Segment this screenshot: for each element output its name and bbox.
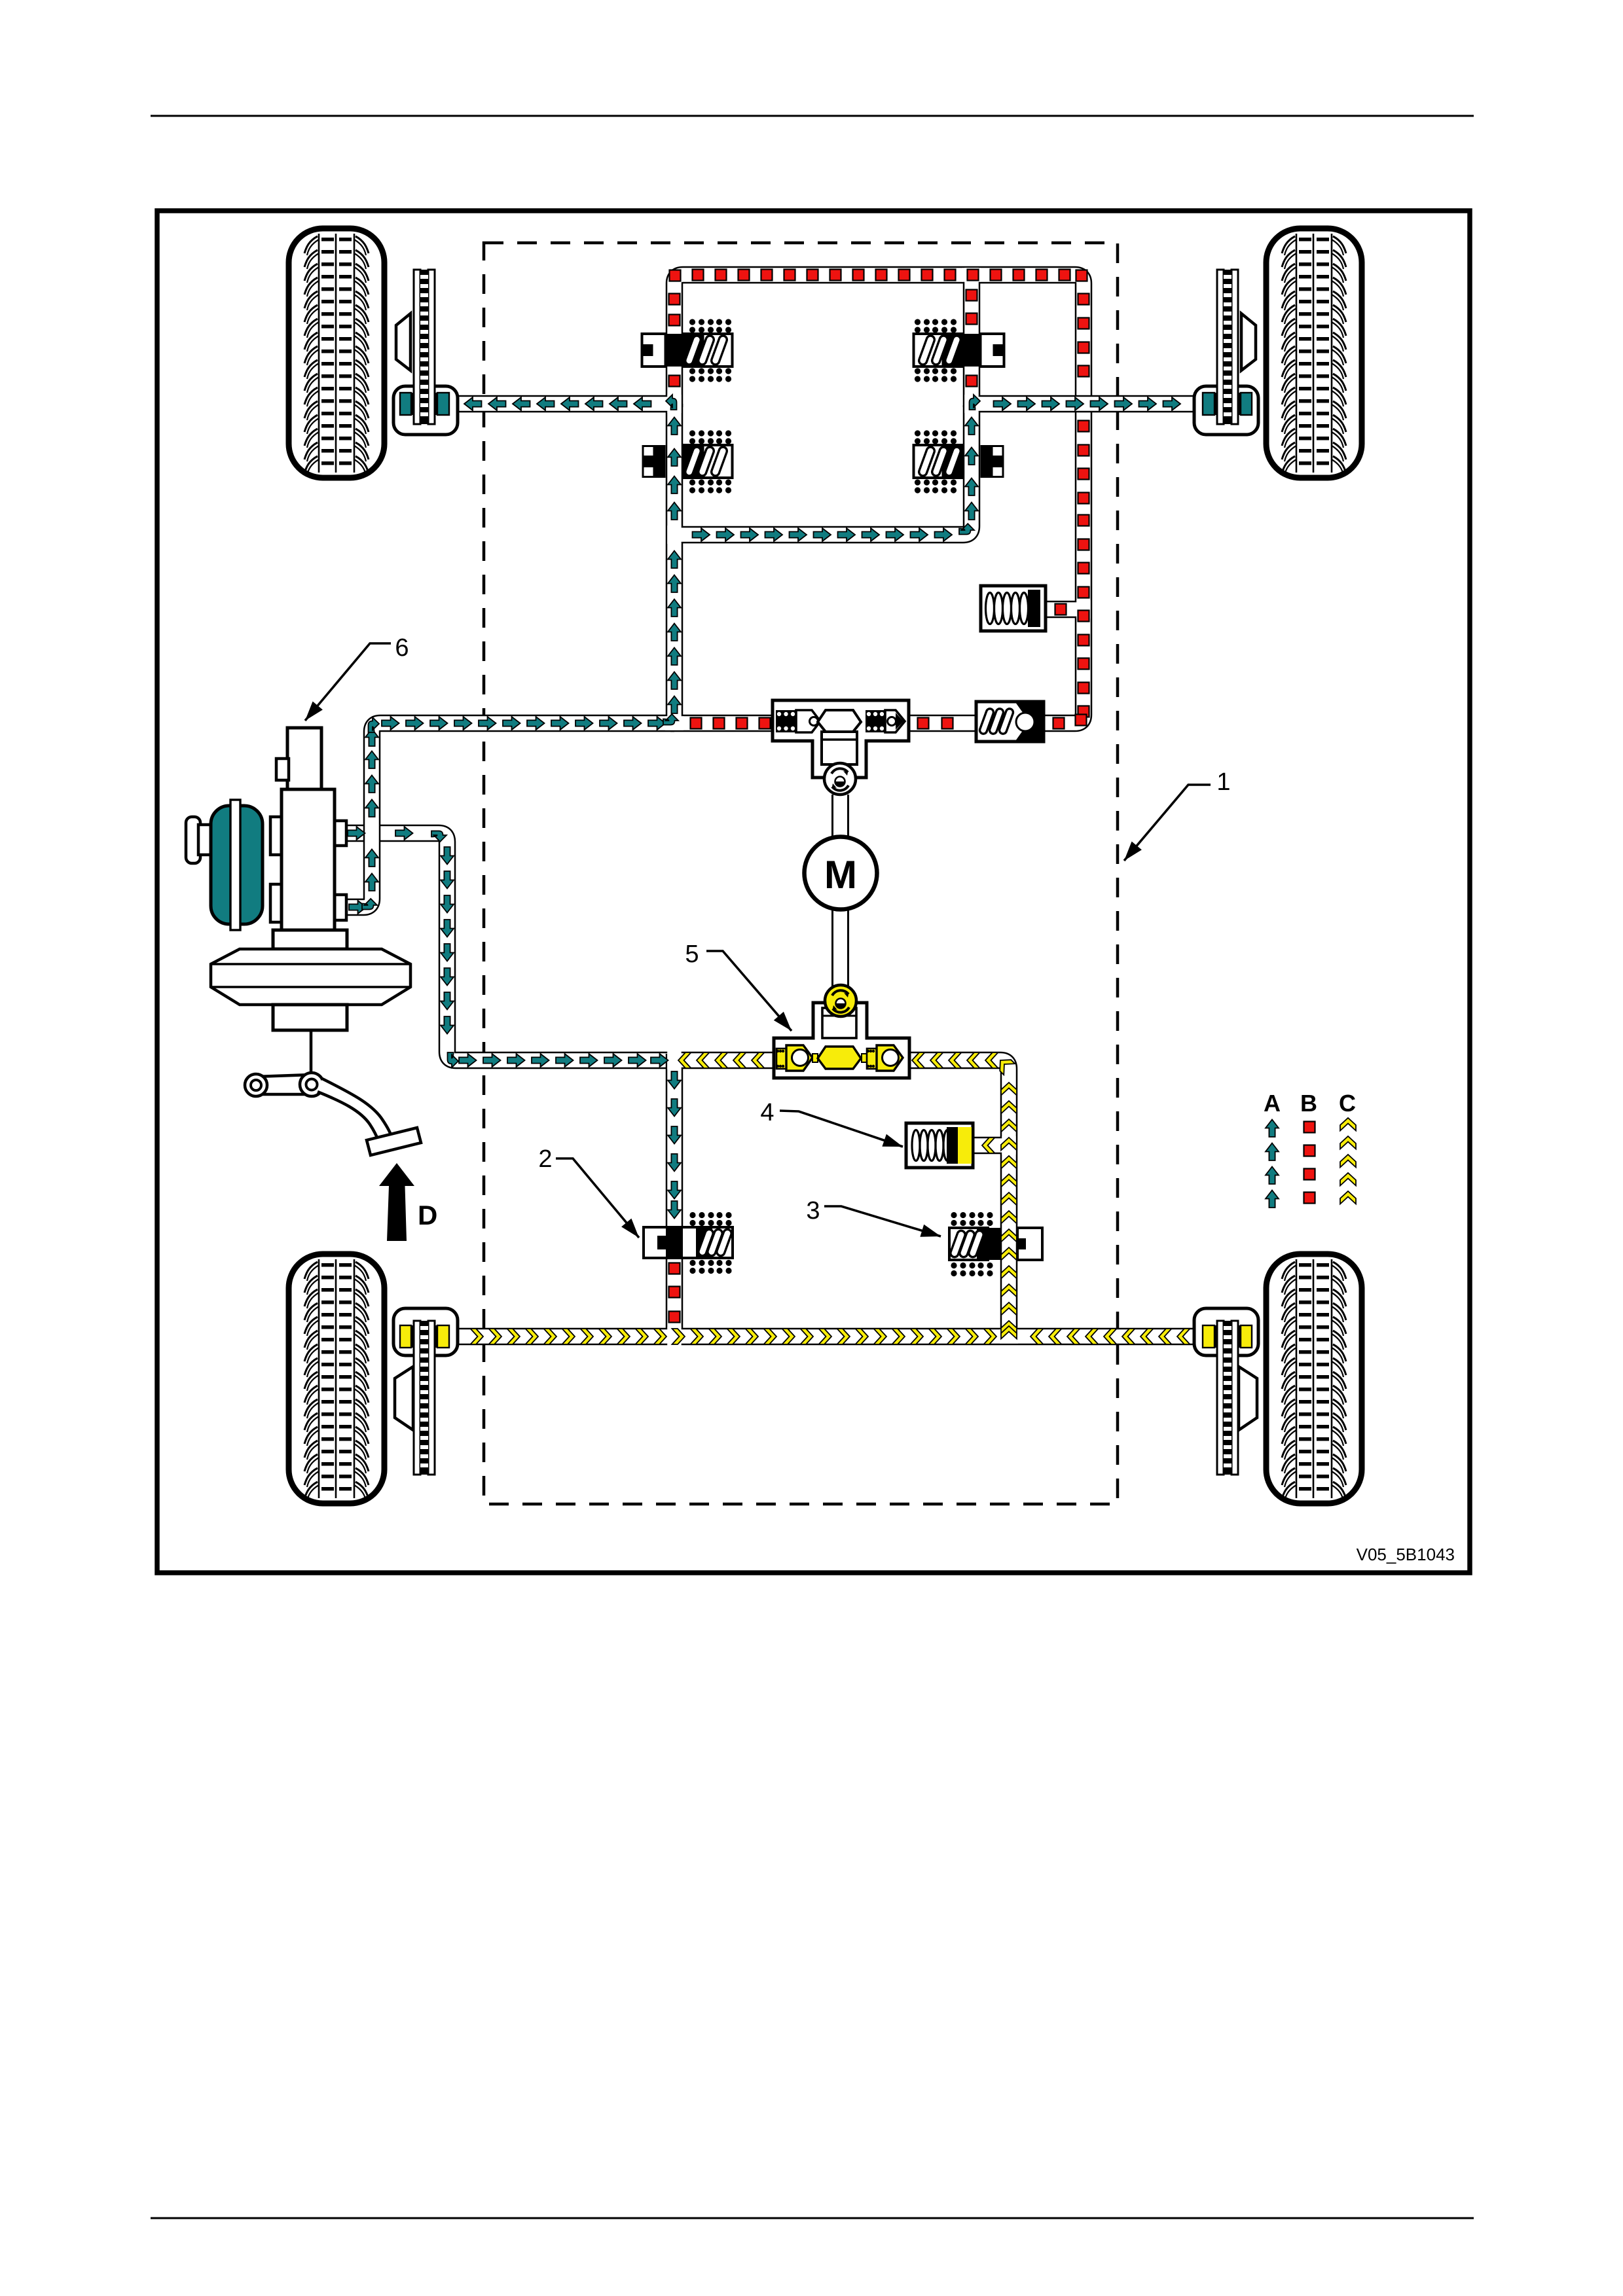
dashed hydraulic-unit boundary (item 1) xyxy=(484,243,1118,1504)
tire rear-left xyxy=(289,1254,384,1503)
diagram border box xyxy=(157,211,1470,1573)
solenoid valve 2 (rear circuit, blocks pipe) xyxy=(644,1212,733,1274)
eccentric drive (upper pump) xyxy=(824,763,856,795)
wire teal front-circuit feed from master cylinder (A) xyxy=(346,723,674,907)
wire rear axle line (C) xyxy=(455,1328,1197,1346)
wire teal riser to front wheels (A) xyxy=(666,404,684,730)
svg-text:6: 6 xyxy=(395,634,409,662)
accumulator 4 (yellow circuit) xyxy=(906,1123,973,1168)
leader line 4 xyxy=(780,1111,903,1147)
damper chamber (red circuit, inline) xyxy=(976,702,1044,742)
svg-text:5: 5 xyxy=(685,941,699,968)
wire accumulator stub (red) xyxy=(1042,601,1085,619)
leader line 3 xyxy=(824,1206,941,1237)
svg-text:V05_5B1043: V05_5B1043 xyxy=(1357,1545,1455,1564)
leader line 6 xyxy=(305,643,391,721)
svg-text:2: 2 xyxy=(538,1145,552,1173)
junction patches xyxy=(667,395,681,413)
wire red return loop (B) xyxy=(670,275,1084,723)
leader line 1 xyxy=(1124,785,1211,861)
solenoid valve front-right outlet xyxy=(914,430,1004,493)
page bottom rule xyxy=(151,2217,1474,2219)
low-pressure accumulator (upper, red circuit) xyxy=(981,586,1046,631)
eccentric drive (pump 5) xyxy=(825,985,856,1016)
vacuum booster xyxy=(211,930,410,1030)
svg-text:C: C xyxy=(1339,1090,1356,1117)
wire yellow pump-5 suction/return line (C) xyxy=(673,1060,1009,1338)
svg-text:A: A xyxy=(1264,1090,1281,1117)
tire front-right xyxy=(1266,228,1362,478)
legend markers xyxy=(1266,1118,1356,1208)
brake rear-right xyxy=(1194,1308,1258,1475)
svg-text:B: B xyxy=(1300,1090,1317,1117)
svg-text:1: 1 xyxy=(1216,768,1230,796)
leader line 5 xyxy=(706,951,792,1031)
pedal force arrow D xyxy=(379,1163,437,1241)
wire front axle line right (A) xyxy=(970,395,1195,413)
svg-text:4: 4 xyxy=(760,1099,774,1126)
svg-text:M: M xyxy=(824,853,857,897)
wire front axle line left (A) xyxy=(458,395,676,413)
solenoid valve front-left inlet xyxy=(642,319,733,382)
wire teal low-pressure inner loop (A) xyxy=(674,405,972,535)
wire teal rear-circuit feed from master cylinder (A) xyxy=(346,833,674,1060)
pump 5 (primary/yellow circuit) xyxy=(774,1003,909,1078)
pressure accumulator tank (teal) xyxy=(186,800,263,930)
leader line 2 xyxy=(556,1158,639,1238)
master cylinder & booster (item 6) xyxy=(270,728,346,931)
solenoid valve 3 (rear circuit, pipe open) xyxy=(949,1212,1042,1276)
wire accumulator 4 stub (yellow) xyxy=(972,1137,1010,1155)
solenoid valve front-left outlet xyxy=(642,430,733,493)
tire front-left xyxy=(289,228,384,478)
wire teal drop to valve 2 (A) xyxy=(666,1054,684,1245)
brake rear-left xyxy=(393,1308,458,1475)
svg-text:D: D xyxy=(418,1200,437,1230)
svg-text:3: 3 xyxy=(806,1197,820,1225)
solenoid valve front-right inlet xyxy=(914,319,1004,382)
brake pedal xyxy=(245,1030,421,1155)
motor M xyxy=(805,837,877,910)
page top rule xyxy=(151,115,1474,117)
flow markers: red squares B xyxy=(669,270,1089,1323)
flow markers: teal arrows A xyxy=(348,395,1180,1219)
pump unit (secondary/red circuit) xyxy=(773,700,909,778)
wire red branch to front-right valve (B) xyxy=(963,268,981,407)
brake front-left xyxy=(393,270,458,435)
motor shaft xyxy=(833,795,848,987)
tire rear-right xyxy=(1266,1254,1362,1503)
flow markers: yellow chevrons C xyxy=(471,1052,1190,1344)
wire red line below valve 2 (B) xyxy=(666,1242,684,1338)
brake front-right xyxy=(1194,270,1258,435)
